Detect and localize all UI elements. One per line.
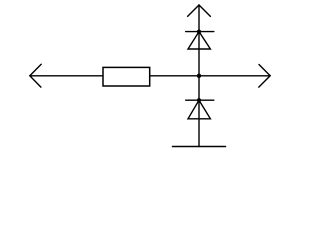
node junction dot	[197, 74, 201, 78]
diode D2 cathode bar	[186, 99, 214, 101]
wire: resistor to right terminal	[150, 75, 270, 77]
resistor R1	[103, 67, 150, 86]
ground rail	[173, 146, 226, 148]
left arrowhead (input terminal)	[30, 64, 41, 87]
wire: vertical net through node	[198, 5, 200, 147]
diode D1 cathode bar	[186, 31, 214, 33]
junction dot at D1 cathode	[197, 30, 201, 34]
diode D2 triangle	[188, 100, 210, 119]
right arrowhead (output terminal)	[259, 65, 270, 88]
up arrowhead (positive supply terminal)	[188, 5, 211, 16]
diode D1 triangle	[188, 32, 210, 49]
junction dot at D2 cathode	[197, 98, 201, 102]
wire: left terminal to resistor	[30, 75, 103, 77]
